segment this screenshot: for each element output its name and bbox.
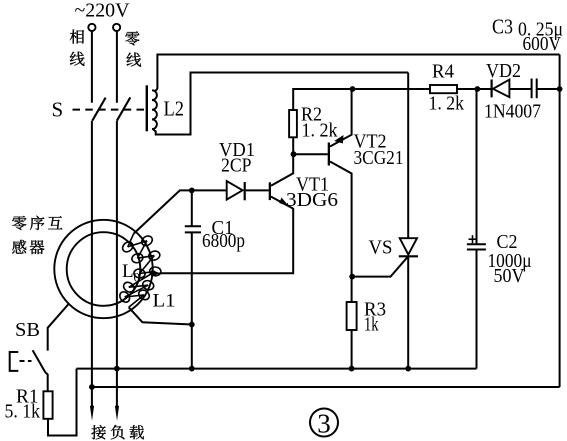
svg-text:SB: SB (15, 319, 40, 341)
wire L2 top lead (157, 55, 559, 89)
wire R4 left (353, 88, 431, 90)
switch S pole 2 blade (117, 97, 130, 120)
pushbutton SB linkage (dashed) (20, 360, 32, 362)
wire R2 top (293, 89, 352, 110)
wire R3 bottom (351, 330, 353, 369)
wire neutral upper (116, 31, 118, 103)
wire CT tap to VT1 emitter (160, 208, 294, 273)
resistor R3 box (347, 302, 357, 330)
capacitor C2 plates (467, 243, 486, 245)
switch S linkage (dashed) (73, 109, 145, 111)
resistor R1 box (43, 391, 52, 419)
wire phase upper (91, 31, 93, 103)
svg-text:3CG21: 3CG21 (354, 147, 404, 169)
wire right border (down from top bus) (559, 55, 561, 388)
svg-text:~220V: ~220V (75, 0, 131, 22)
svg-text:3: 3 (317, 409, 331, 439)
svg-text:L2: L2 (164, 97, 185, 121)
CT core inner ring (67, 232, 141, 306)
svg-text:VS: VS (369, 237, 393, 259)
svg-text:1k: 1k (364, 314, 379, 336)
svg-text:C3: C3 (492, 15, 513, 39)
transistor VT2 base bar (328, 143, 330, 166)
transistor VT2 emitter (330, 89, 352, 147)
node neutral/bus1 (junction dot) (114, 366, 120, 372)
node VD1/C1 (junction dot) (189, 188, 195, 194)
capacitor C2 polarity + (469, 238, 477, 240)
svg-text:2CP: 2CP (221, 154, 252, 176)
svg-text:5. 1k: 5. 1k (5, 401, 41, 423)
node R3/bus1 (junction dot) (349, 366, 355, 372)
svg-text:R4: R4 (432, 61, 454, 83)
node R2/VT1/VT2 (junction dot) (291, 151, 297, 157)
thyristor VS cathode bar (399, 255, 418, 257)
svg-text:L1: L1 (153, 291, 176, 312)
wire R3 top (351, 277, 353, 302)
switch S pole 1 blade (92, 98, 105, 121)
capacitor C3 plates (531, 79, 533, 99)
thyristor VS triangle (400, 238, 417, 254)
diode VD2 cathode bar (491, 80, 493, 98)
CT core outer ring (54, 220, 152, 318)
transistor VT2 collector (330, 162, 352, 278)
label 零线 (neutral line) (125, 31, 139, 45)
svg-text:1. 2k: 1. 2k (302, 120, 338, 142)
svg-text:L: L (122, 261, 134, 282)
terminal phase (top circle) (88, 24, 95, 31)
wire neutral to load + arrowhead (116, 369, 118, 408)
node C3/right border (junction dot) (557, 86, 563, 92)
pushbutton SB blade (33, 350, 48, 391)
terminal neutral (top circle) (113, 24, 120, 31)
pushbutton SB actuator (E bracket) (10, 352, 19, 371)
wire R2 bottom (292, 137, 294, 155)
svg-text:3DG6: 3DG6 (286, 189, 338, 211)
resistor R2 box (289, 110, 297, 137)
thyristor VS gate (352, 256, 408, 276)
wire VD1 to VT1 base (246, 189, 269, 191)
label 相线 (phase line) (70, 30, 84, 44)
label 零序互感器 (12, 216, 26, 230)
wire L2 bottom lead to VS anode line (153, 73, 408, 135)
wire VS anode drop (407, 73, 409, 239)
label 接负载 (to load) (91, 425, 105, 439)
node gate/R3 (junction dot) (349, 274, 355, 280)
figure number circle 3 (310, 409, 338, 437)
wire VT2 base (294, 153, 328, 155)
CT centre tap arrow (151, 270, 161, 276)
transistor VT1 emitter (271, 197, 293, 209)
svg-text:6800p: 6800p (202, 230, 245, 252)
wire R1 bottom loop to bus1 (48, 369, 77, 436)
wire R4 to VD2 (457, 88, 491, 90)
svg-text:0: 0 (134, 270, 141, 285)
wire phase below switch (91, 121, 93, 387)
transistor VT1 base bar (269, 182, 271, 200)
wire neutral below switch (116, 121, 118, 369)
svg-text:600V: 600V (523, 33, 562, 55)
resistor R4 box (430, 85, 457, 93)
wire node to VD1 (192, 189, 227, 191)
wire CT bottom terminal (129, 307, 192, 324)
capacitor C1 plates (185, 225, 201, 227)
node phase-bus2 junction (89, 384, 95, 390)
wire phase to load + arrowhead (91, 387, 93, 408)
wire bottom bus2 (91, 386, 560, 388)
wire C2 bottom (476, 250, 478, 369)
wire C2 top (476, 89, 478, 244)
diode VD1 triangle (227, 181, 243, 200)
svg-text:S: S (52, 98, 64, 122)
transistor VT1 collector (271, 155, 293, 186)
CT winding connecting strands (128, 241, 147, 247)
L2 core bar (146, 85, 148, 131)
svg-text:1N4007: 1N4007 (484, 101, 541, 123)
wire C1 bottom (191, 232, 193, 368)
svg-text:VD2: VD2 (486, 60, 521, 82)
svg-text:1. 2k: 1. 2k (429, 93, 465, 115)
node C1/bus1 (junction dot) (189, 366, 195, 372)
wire VS cathode down (407, 256, 409, 368)
node C2 top (junction dot) (475, 86, 481, 92)
node VS/bus1 (junction dot) (405, 366, 411, 372)
CT winding L0/L1 loops (121, 240, 135, 254)
node CT bottom / C1 line (189, 322, 195, 328)
diode VD1 cathode bar (244, 182, 246, 200)
wire VD2 to C3 (509, 88, 531, 90)
svg-text:50V: 50V (494, 265, 525, 287)
wire CT top terminal to C1 node (134, 190, 192, 233)
diode VD2 triangle (493, 80, 509, 98)
wire C3 to right border (537, 88, 560, 90)
wire bus1 (77, 368, 477, 370)
wire C1 top (191, 190, 193, 226)
L2 coil winding (152, 88, 157, 130)
node VT2 emitter/R4 (junction dot) (350, 86, 356, 92)
wire CT ring to SB (48, 304, 69, 351)
